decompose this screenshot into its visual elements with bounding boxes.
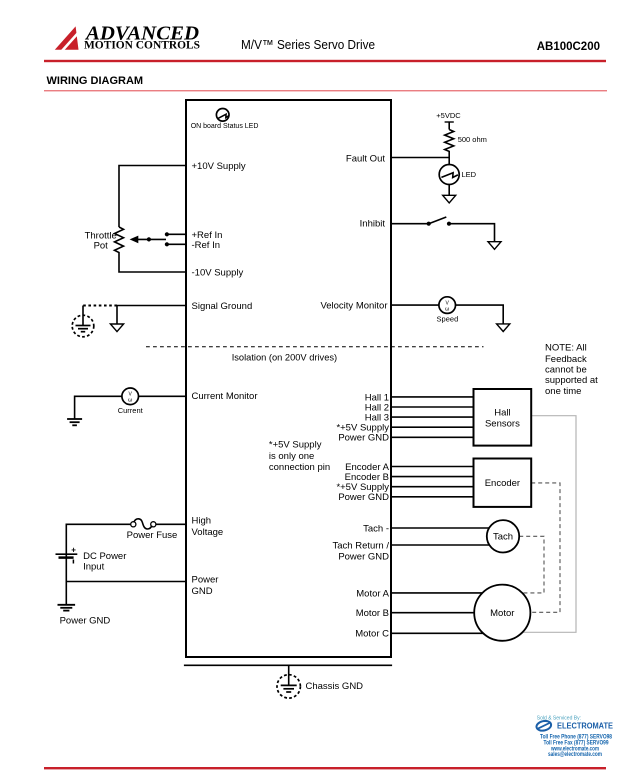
svg-text:+5VDC: +5VDC <box>436 111 461 120</box>
svg-text:Power GND: Power GND <box>338 492 389 503</box>
svg-text:DC Power: DC Power <box>83 551 126 562</box>
svg-text:Input: Input <box>83 562 104 573</box>
svg-text:connection pin: connection pin <box>269 462 330 473</box>
svg-text:ELECTROMATE: ELECTROMATE <box>557 722 613 731</box>
svg-text:Power: Power <box>192 575 219 586</box>
svg-text:Motor C: Motor C <box>355 629 389 640</box>
svg-text:Motor: Motor <box>490 608 514 619</box>
svg-text:M/V™ Series Servo Drive: M/V™ Series Servo Drive <box>241 37 375 52</box>
svg-text:Velocity Monitor: Velocity Monitor <box>320 301 387 312</box>
svg-text:Tach Return /: Tach Return / <box>333 540 390 551</box>
svg-text:Voltage: Voltage <box>192 527 224 538</box>
svg-text:LED: LED <box>462 170 477 179</box>
svg-text:High: High <box>192 516 212 527</box>
svg-text:Fault Out: Fault Out <box>346 153 385 164</box>
svg-text:Sensors: Sensors <box>485 419 520 430</box>
svg-text:-Ref In: -Ref In <box>192 240 221 251</box>
svg-text:-10V Supply: -10V Supply <box>192 268 244 279</box>
svg-text:Power Fuse: Power Fuse <box>127 530 178 541</box>
svg-text:Power GND: Power GND <box>338 433 389 444</box>
svg-text:Signal Ground: Signal Ground <box>192 301 253 312</box>
svg-text:NOTE: All: NOTE: All <box>545 343 587 354</box>
svg-text:Chassis GND: Chassis GND <box>306 681 364 692</box>
svg-text:+10V Supply: +10V Supply <box>192 161 246 172</box>
svg-text:supported at: supported at <box>545 375 598 386</box>
svg-text:ω: ω <box>128 398 133 404</box>
svg-text:one time: one time <box>545 386 581 397</box>
svg-text:Feedback: Feedback <box>545 354 587 365</box>
svg-text:*+5V Supply: *+5V Supply <box>269 440 322 451</box>
svg-text:WIRING DIAGRAM: WIRING DIAGRAM <box>47 75 144 87</box>
svg-text:Hall: Hall <box>494 408 510 419</box>
svg-text:Motor B: Motor B <box>356 608 389 619</box>
svg-text:Pot: Pot <box>94 240 109 251</box>
svg-text:Inhibit: Inhibit <box>360 219 386 230</box>
svg-text:+: + <box>71 546 76 555</box>
svg-text:sales@electromate.com: sales@electromate.com <box>548 751 602 758</box>
svg-text:Tach: Tach <box>493 532 513 543</box>
svg-text:cannot be: cannot be <box>545 364 587 375</box>
svg-text:Isolation (on 200V drives): Isolation (on 200V drives) <box>232 352 337 362</box>
svg-text:ON board Status LED: ON board Status LED <box>191 123 259 130</box>
svg-text:Power GND: Power GND <box>60 616 111 627</box>
svg-text:Current Monitor: Current Monitor <box>192 391 258 402</box>
svg-text:Encoder: Encoder <box>485 478 520 489</box>
svg-text:MOTION CONTROLS: MOTION CONTROLS <box>84 38 200 52</box>
svg-text:Tach -: Tach - <box>363 523 389 534</box>
svg-text:500 ohm: 500 ohm <box>458 135 487 144</box>
svg-text:is only one: is only one <box>269 451 314 462</box>
svg-text:Power GND: Power GND <box>338 552 389 563</box>
svg-text:Motor A: Motor A <box>356 588 389 599</box>
svg-text:Current: Current <box>118 406 144 415</box>
svg-text:GND: GND <box>192 586 213 597</box>
svg-text:Speed: Speed <box>437 315 459 324</box>
svg-text:ω: ω <box>445 306 450 312</box>
svg-text:AB100C200: AB100C200 <box>537 41 600 53</box>
